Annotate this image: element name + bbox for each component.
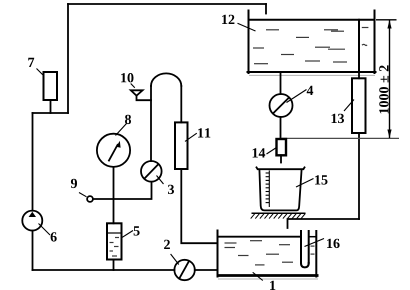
piezometer 13 — [352, 78, 366, 133]
damper pot 5 — [107, 223, 122, 259]
wire valve 4 to nozzle line — [280, 117, 282, 139]
label 8 — [125, 115, 131, 124]
tank 1 right wall — [315, 231, 317, 277]
tank 1 water line — [218, 236, 302, 238]
tank 12 left wall — [248, 11, 250, 74]
wire bottom horizontal left — [33, 269, 175, 271]
funnel 10 — [131, 90, 143, 95]
tank 1 left wall — [217, 231, 219, 277]
valve 3 — [141, 161, 162, 182]
element 7 (air vessel) — [44, 72, 58, 100]
wire left vertical — [32, 113, 34, 211]
wire horizontal to left riser — [33, 112, 69, 114]
overflow tube 16 outer — [300, 231, 302, 264]
overflow tube 16 inner — [308, 231, 310, 264]
tube water level tick — [309, 236, 317, 238]
wire tank 12 outlet to valve 4 — [280, 73, 282, 95]
tank 12 liquid dashes — [253, 28, 368, 64]
beaker 15 — [259, 169, 301, 210]
wire below pump 6 — [32, 231, 34, 270]
wire tank 12 outlet to piezometer 13 — [358, 73, 360, 79]
label 15 — [315, 175, 327, 184]
valve 2 — [174, 260, 194, 280]
label 1 — [270, 281, 275, 290]
wire below element 5 — [113, 260, 115, 271]
tank 12 bottom — [248, 71, 376, 73]
wire bottom horizontal right to tank 1 — [195, 269, 218, 271]
wire top horizontal — [68, 3, 266, 5]
siphon arc — [151, 73, 181, 86]
nozzle level line — [281, 137, 400, 139]
wire inlet drop into tank 12 — [265, 4, 267, 14]
wire siphon left leg — [150, 86, 152, 161]
beaker scale — [266, 171, 270, 208]
wire stem of element 7 — [50, 100, 52, 113]
element 9 (drain cock) — [87, 196, 93, 202]
tank 12 overflow partition — [358, 20, 360, 72]
label 2 — [164, 240, 170, 249]
tank 1 liquid dashes — [225, 241, 315, 265]
label 3 — [168, 185, 174, 194]
label 16 — [327, 239, 340, 248]
label 9 — [71, 179, 77, 188]
wire right side to tank 1 — [288, 219, 360, 228]
wire below rotameter 11 to tank 1 — [181, 169, 217, 243]
label 11 — [198, 128, 210, 137]
label 4 — [307, 86, 314, 95]
label 10 — [121, 73, 133, 82]
wire gauge stem down to element 5 — [113, 167, 115, 223]
tank 1 bottom — [217, 274, 319, 277]
ground under beaker — [252, 212, 306, 214]
valve 4 — [270, 94, 293, 117]
wire jet below nozzle — [280, 155, 282, 162]
label 6 — [51, 232, 57, 241]
tank 12 right wall — [374, 11, 376, 74]
nozzle 14 — [277, 139, 287, 155]
overflow tube 16 U bottom — [301, 263, 309, 267]
pump U6 — [22, 211, 42, 231]
wire left drop from top — [67, 4, 69, 113]
wire from element 9 to valve 3 — [93, 182, 152, 199]
rotameter 11 — [175, 122, 188, 169]
label 7 — [28, 58, 34, 67]
label 12 — [222, 15, 234, 24]
gauge 8 — [97, 134, 130, 167]
wire below 13 down right side — [358, 133, 360, 219]
label 13 — [332, 114, 344, 123]
tank 12 water line — [249, 19, 375, 21]
wire siphon right leg — [180, 86, 182, 122]
dimension line 1000±2 — [376, 20, 397, 138]
label 14 — [253, 148, 266, 157]
label 5 — [134, 226, 140, 235]
